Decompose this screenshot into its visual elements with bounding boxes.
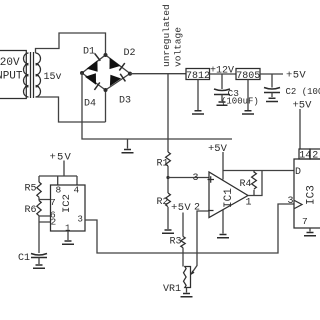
wiper arrowhead [190, 271, 194, 276]
svg-text:voltage: voltage [173, 27, 184, 67]
svg-text:4: 4 [74, 185, 80, 196]
svg-text:R5: R5 [25, 184, 37, 195]
svg-text:IC2: IC2 [61, 194, 73, 213]
capacitor C1 [18, 253, 47, 268]
svg-text:7: 7 [302, 216, 308, 227]
svg-text:IC1: IC1 [223, 188, 235, 208]
capacitor C3 [214, 74, 259, 107]
transformer T1 box and primary label [0, 51, 26, 99]
svg-text:R4: R4 [240, 179, 252, 190]
clock input triangle pin 3 [288, 196, 303, 209]
svg-text:IC3: IC3 [306, 185, 318, 205]
svg-text:R6: R6 [25, 205, 37, 216]
ground under VR1 [181, 294, 193, 297]
bridge diamond [82, 55, 130, 90]
wire R2 to ground [167, 207, 169, 229]
svg-text:2: 2 [312, 151, 318, 162]
wire R4 to output node [253, 190, 255, 196]
svg-text:D1: D1 [83, 47, 95, 58]
svg-text:+5V: +5V [50, 152, 73, 164]
ground on rail [122, 139, 134, 153]
ground under IC2 [62, 241, 74, 244]
regulator 7805 [236, 69, 260, 82]
svg-text:D2: D2 [124, 48, 136, 59]
svg-text:D4: D4 [84, 99, 96, 110]
wire op-amp output to IC3 D [248, 171, 294, 196]
diode D1 [83, 47, 100, 72]
svg-text:+5V: +5V [171, 202, 191, 214]
wire bridge bottom vertex down [105, 90, 107, 122]
svg-text:15v: 15v [44, 72, 62, 83]
svg-text:3: 3 [193, 173, 199, 184]
svg-text:1: 1 [246, 198, 252, 209]
pin 2 box [310, 149, 320, 162]
resistor R2 [157, 193, 171, 208]
svg-text:VR1: VR1 [163, 284, 181, 295]
pin 14 box [299, 149, 311, 162]
svg-text:220V: 220V [0, 57, 20, 69]
wire R5 to pin 7 junction [39, 197, 51, 200]
resistor R4 [240, 171, 257, 191]
wire 7805 to +5V [260, 73, 283, 75]
op-amp IC1 [208, 172, 249, 218]
svg-text:C2 (100u: C2 (100u [286, 87, 320, 97]
svg-text:C1: C1 [18, 253, 30, 264]
resistor R5 [25, 182, 42, 197]
node left vertex [80, 71, 84, 75]
transformer primary winding [24, 53, 29, 97]
svg-text:3: 3 [288, 196, 294, 207]
ground under 7805 [242, 80, 254, 115]
wire IC2 pin 1 to ground [67, 231, 69, 240]
wire R6 to pins 6,2 and C1 [39, 216, 51, 253]
diode D4 [84, 73, 100, 109]
diode D3 [110, 74, 131, 107]
transformer secondary winding [36, 53, 41, 97]
regulator 7812 [186, 69, 210, 82]
svg-text:3: 3 [78, 215, 83, 225]
wire secondary bottom to bridge bottom [36, 97, 106, 122]
resistor R6 [25, 201, 42, 217]
wire +5V down to IC3 pin 14 [299, 109, 301, 149]
svg-text:R1: R1 [157, 159, 169, 170]
transformer core [31, 52, 34, 98]
wire op-amp pin 2 [191, 211, 209, 274]
node bottom vertex [104, 88, 108, 92]
svg-text:R3: R3 [170, 237, 182, 248]
wire junction to op-amp pin 3 [168, 177, 209, 179]
node divider junction [166, 176, 169, 179]
svg-text:8: 8 [56, 185, 62, 196]
svg-text:+5V: +5V [208, 143, 228, 155]
wire +5V branch to R4 [223, 170, 262, 172]
ground under 7812 [192, 80, 204, 115]
svg-text:INPUT: INPUT [0, 71, 23, 83]
wire secondary top to bridge top [36, 33, 106, 55]
wire 7812 to 7805 [210, 73, 237, 75]
ground under R2 [162, 230, 174, 233]
wire R3 to VR1 [182, 248, 184, 267]
resistor R1 [157, 152, 171, 170]
ground under IC1 [217, 210, 229, 238]
svg-text:2: 2 [51, 217, 57, 228]
wire VR1 to ground [186, 288, 188, 293]
svg-text:(100uF): (100uF) [221, 97, 259, 107]
diode D2 [110, 48, 136, 71]
svg-text:+5V: +5V [293, 100, 313, 112]
timer IC2 [50, 185, 85, 234]
svg-text:+5V: +5V [286, 70, 306, 82]
svg-text:R2: R2 [157, 197, 169, 208]
potentiometer VR1 [163, 267, 191, 296]
svg-text:D3: D3 [119, 96, 131, 107]
wire +5V to IC2 pins 8,4 [39, 161, 77, 186]
wire +5V to R3 [182, 213, 184, 237]
svg-text:unregulated: unregulated [161, 4, 172, 67]
wire IC2 pin 3 to IC3 clock [85, 204, 294, 253]
resistor R3 [170, 237, 186, 248]
ground under IC3 pin 7 [304, 228, 316, 236]
wire +5V to op-amp supply [222, 152, 224, 180]
wire bridge right vertex to 7812 [130, 73, 186, 75]
svg-text:7: 7 [50, 197, 56, 208]
wire unregulated tap [167, 74, 169, 152]
svg-text:D: D [295, 167, 301, 178]
node right vertex [128, 72, 132, 76]
counter IC3 [294, 159, 320, 228]
wire R1 to junction [167, 166, 169, 193]
capacitor C2 [264, 74, 320, 102]
wire to R5 [38, 176, 40, 182]
wire DC minus rail [82, 73, 232, 139]
node top vertex [104, 53, 108, 57]
